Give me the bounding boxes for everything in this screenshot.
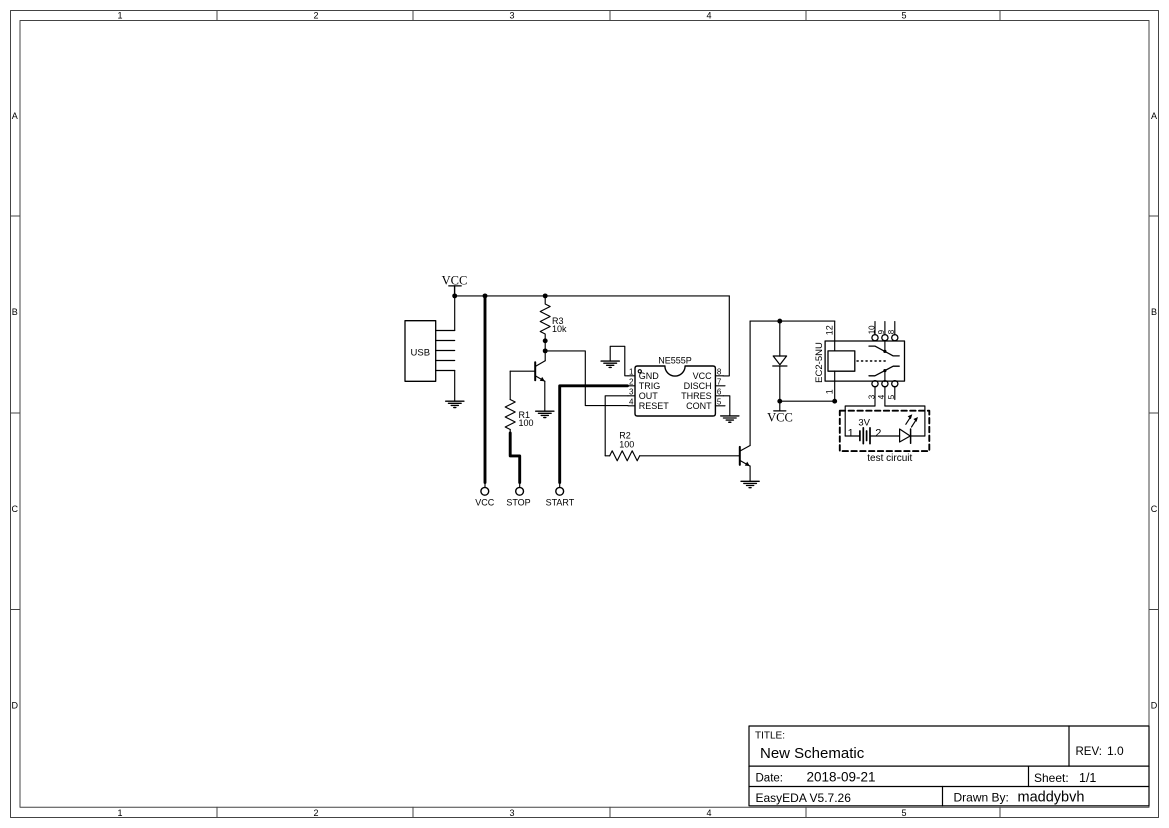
pin 1 [436, 330, 455, 332]
wire: USB pin5 to ground [454, 371, 456, 402]
svg-text:1: 1 [824, 389, 834, 394]
svg-text:OUT: OUT [639, 391, 659, 401]
svg-text:8: 8 [717, 368, 722, 377]
svg-text:2: 2 [313, 808, 318, 818]
svg-text:2: 2 [629, 378, 634, 387]
svg-text:C: C [11, 504, 18, 514]
svg-text:test circuit: test circuit [867, 453, 912, 464]
svg-text:TRIG: TRIG [639, 381, 661, 391]
battery BT1 3V [845, 418, 899, 444]
junction node Q1 collector [543, 348, 548, 353]
ground at U1 pin6 [721, 416, 739, 423]
junction node relay pin1 [832, 399, 837, 404]
TITLE BLOCK [749, 726, 1149, 806]
junction node R3 bottom [543, 338, 548, 343]
svg-text:4: 4 [629, 398, 634, 407]
svg-text:Sheet:: Sheet: [1034, 771, 1069, 785]
pin 8 [894, 322, 896, 335]
svg-text:9: 9 [877, 329, 886, 334]
pin 4 RESET [628, 405, 635, 407]
port VCC [475, 482, 495, 508]
svg-text:EasyEDA V5.7.26: EasyEDA V5.7.26 [756, 791, 852, 805]
diode D1 [773, 321, 787, 401]
svg-text:7: 7 [717, 378, 722, 387]
wire: U1 OUT to R2 [605, 396, 628, 456]
pin 2 [436, 340, 455, 342]
svg-text:4: 4 [706, 808, 711, 818]
svg-text:B: B [1151, 307, 1157, 317]
wire: top link to relay [750, 320, 835, 322]
pin 10 [874, 322, 876, 335]
pin 3 [436, 350, 455, 352]
svg-text:Drawn By:: Drawn By: [954, 791, 1009, 805]
svg-text:VCC: VCC [693, 371, 713, 381]
resistor R1 100 [505, 371, 533, 433]
transistor Q2 [740, 446, 750, 482]
port STOP [506, 482, 530, 508]
svg-text:THRES: THRES [681, 391, 712, 401]
svg-text:STOP: STOP [506, 498, 530, 508]
svg-text:1: 1 [117, 10, 122, 20]
svg-text:100: 100 [619, 439, 634, 449]
test circuit dashed box [840, 411, 930, 464]
svg-text:5: 5 [901, 808, 906, 818]
svg-text:3: 3 [509, 808, 514, 818]
wire thick: START port to U1 TRIG [560, 386, 628, 483]
transistor Q1 [535, 351, 545, 411]
svg-text:START: START [546, 498, 575, 508]
pin 4 [884, 372, 886, 382]
svg-text:NE555P: NE555P [658, 355, 692, 365]
svg-text:10k: 10k [552, 324, 567, 334]
svg-text:2018-09-21: 2018-09-21 [807, 769, 876, 784]
svg-text:4: 4 [877, 394, 886, 399]
wire: U1 pin1 to ground [610, 346, 628, 376]
svg-text:Date:: Date: [756, 772, 784, 784]
svg-text:A: A [1151, 111, 1157, 121]
svg-text:2: 2 [313, 10, 318, 20]
junction node rail/VCC port wire [483, 293, 488, 298]
pin 3 OUT [628, 395, 635, 397]
wire: rail to U1 pin 8 [723, 296, 729, 376]
pin 5 [436, 370, 455, 372]
power flag VCC top [442, 274, 468, 296]
svg-text:1: 1 [848, 428, 854, 440]
wire: R2 to Q2 base [640, 455, 740, 457]
svg-text:12: 12 [824, 325, 834, 335]
svg-text:3V: 3V [858, 418, 870, 429]
pin 5 CONT [715, 405, 725, 407]
wire: R3 bottom to Q1 collector [544, 341, 546, 351]
wire: USB pin1 to VCC rail [454, 296, 456, 331]
svg-text:1/1: 1/1 [1079, 771, 1096, 785]
pin 12 [834, 321, 836, 351]
wire: Q1 base [510, 370, 535, 372]
junction node diode cathode [777, 399, 782, 404]
pin 6 THRES [715, 395, 723, 397]
bottom contact blade [869, 366, 899, 376]
pin 1 [834, 371, 836, 401]
wire thick: VCC port riser [484, 296, 487, 483]
ground under USB [446, 401, 464, 408]
relay K1 EC2-5NU [814, 321, 905, 406]
svg-text:1: 1 [117, 808, 122, 818]
svg-text:A: A [12, 111, 18, 121]
port START [546, 482, 575, 508]
connector USB [405, 321, 455, 382]
wire thick: R1 to STOP port [510, 433, 520, 483]
svg-text:VCC: VCC [475, 498, 495, 508]
svg-text:3: 3 [509, 10, 514, 20]
svg-text:5: 5 [887, 394, 896, 399]
resistor R3 10k [540, 296, 567, 341]
junction node rail/R3 [543, 293, 548, 298]
svg-text:1: 1 [629, 368, 634, 377]
wire: U1 pin6 to ground [723, 396, 729, 416]
svg-text:C: C [1151, 504, 1158, 514]
wire: Q2 collector riser [749, 321, 751, 445]
pin 8 VCC [715, 375, 723, 377]
ground at U1 pin1 [601, 361, 619, 368]
svg-text:1.0: 1.0 [1107, 744, 1124, 758]
svg-text:5: 5 [717, 398, 722, 407]
svg-text:CONT: CONT [686, 401, 712, 411]
pin 4 [436, 360, 455, 362]
coil box [828, 351, 855, 371]
svg-text:6: 6 [717, 388, 722, 397]
power flag VCC bottom [767, 401, 793, 424]
svg-text:USB: USB [411, 348, 431, 359]
svg-text:2: 2 [875, 428, 881, 440]
svg-text:GND: GND [639, 371, 660, 381]
pin 7 DISCH [715, 385, 725, 387]
svg-text:3: 3 [867, 394, 876, 399]
ground at Q1 emitter [536, 411, 554, 418]
pin 5 [894, 387, 896, 400]
LED LED1 [900, 414, 925, 443]
linkage dotted line [857, 360, 888, 362]
junction node diode anode [777, 319, 782, 324]
svg-text:3: 3 [629, 388, 634, 397]
svg-text:10: 10 [867, 325, 876, 334]
svg-text:REV:: REV: [1076, 746, 1102, 758]
resistor R2 100 [605, 431, 640, 461]
junction node rail/USB [452, 293, 457, 298]
svg-text:VCC: VCC [767, 410, 793, 424]
CIRCUIT [405, 274, 929, 508]
svg-text:New Schematic: New Schematic [760, 745, 865, 762]
pin 9 [884, 322, 886, 335]
svg-text:100: 100 [519, 418, 534, 428]
wire: relay pin4 to test circuit [885, 406, 925, 436]
svg-text:B: B [12, 307, 18, 317]
svg-text:maddybvh: maddybvh [1018, 790, 1085, 806]
IC U1 NE555P [628, 355, 725, 416]
wire: node to U1 RESET pin 4 [545, 351, 628, 406]
svg-text:EC2-5NU: EC2-5NU [814, 342, 825, 383]
wire: VCC rail [455, 295, 730, 297]
svg-text:D: D [11, 701, 18, 711]
wire: relay pin3 to test circuit [845, 406, 875, 436]
svg-text:5: 5 [901, 10, 906, 20]
pin 3 [874, 387, 876, 407]
svg-text:RESET: RESET [639, 401, 670, 411]
svg-text:4: 4 [706, 10, 711, 20]
ground at Q2 emitter [741, 481, 759, 488]
pin 1 GND [628, 375, 635, 377]
pin 2 TRIG [628, 385, 635, 387]
svg-text:DISCH: DISCH [684, 381, 712, 391]
svg-text:TITLE:: TITLE: [755, 731, 785, 742]
svg-text:8: 8 [887, 329, 896, 334]
svg-text:D: D [1151, 701, 1158, 711]
top contact blade [869, 346, 899, 356]
wire: diode to relay pin1 [780, 400, 835, 402]
